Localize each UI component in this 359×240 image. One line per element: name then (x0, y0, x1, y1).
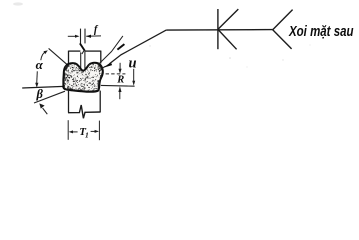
root reference line (left of weld) (22, 86, 64, 88)
svg-text:u: u (129, 56, 137, 72)
u dimension shaft and arrow (133, 69, 135, 82)
R top arrow (119, 63, 121, 70)
svg-text:1: 1 (85, 131, 89, 140)
T1 left arrow (71, 131, 77, 133)
weld bead stipple (63, 63, 102, 92)
K weld symbol vertical (217, 9, 219, 49)
left plate top edge (69, 50, 81, 52)
paper smudge top-left (13, 2, 23, 5)
svg-text:Xoi mặt sau: Xoi mặt sau (288, 23, 353, 40)
root gap line right (upper segment) (84, 29, 86, 44)
svg-text:R: R (116, 75, 124, 86)
lower plate right edge (99, 91, 101, 112)
left plate left edge (68, 51, 70, 65)
alpha arc with arrowhead (41, 52, 46, 61)
break zigzag stroke bold (80, 43, 85, 50)
right bevel face extension line (98, 36, 123, 65)
T1 extension line right (98, 121, 100, 141)
beta down arrow (36, 71, 39, 83)
svg-text:β: β (36, 87, 44, 101)
beta leg line (34, 91, 65, 103)
break zigzag flick (82, 50, 84, 54)
faint scan specks (149, 45, 150, 46)
dashed root face line (upper) (106, 73, 126, 75)
f dimension left arrow line (68, 35, 77, 37)
root gap line right (lower segment) (84, 50, 86, 70)
lower plate bottom edge with break (68, 105, 101, 118)
tail fork lower branch (273, 30, 292, 49)
T1 right arrow (91, 130, 96, 132)
root gap line left (upper segment) (80, 29, 82, 44)
leader arrowhead at weld (100, 66, 105, 69)
leader line (110, 30, 167, 64)
f dimension right arrow line (86, 35, 101, 37)
K weld symbol lower diagonal (218, 29, 237, 49)
weld bead fill (63, 63, 103, 92)
R bottom arrow (119, 92, 121, 100)
svg-text:α: α (36, 57, 44, 72)
alpha leg line (49, 48, 68, 64)
right plate right edge (100, 51, 102, 64)
arrow tick on leader (117, 44, 124, 50)
reference line (166, 29, 273, 32)
root face line extended right (101, 84, 135, 87)
right plate top edge (85, 50, 101, 52)
lower plate left edge (68, 90, 70, 113)
T1 extension line left (67, 120, 69, 140)
tail fork upper branch (273, 10, 293, 30)
beta leg arrow from below (43, 108, 48, 114)
K weld symbol upper diagonal (218, 9, 238, 29)
svg-text:f: f (94, 25, 99, 36)
root gap line left (lower segment) (80, 52, 82, 70)
